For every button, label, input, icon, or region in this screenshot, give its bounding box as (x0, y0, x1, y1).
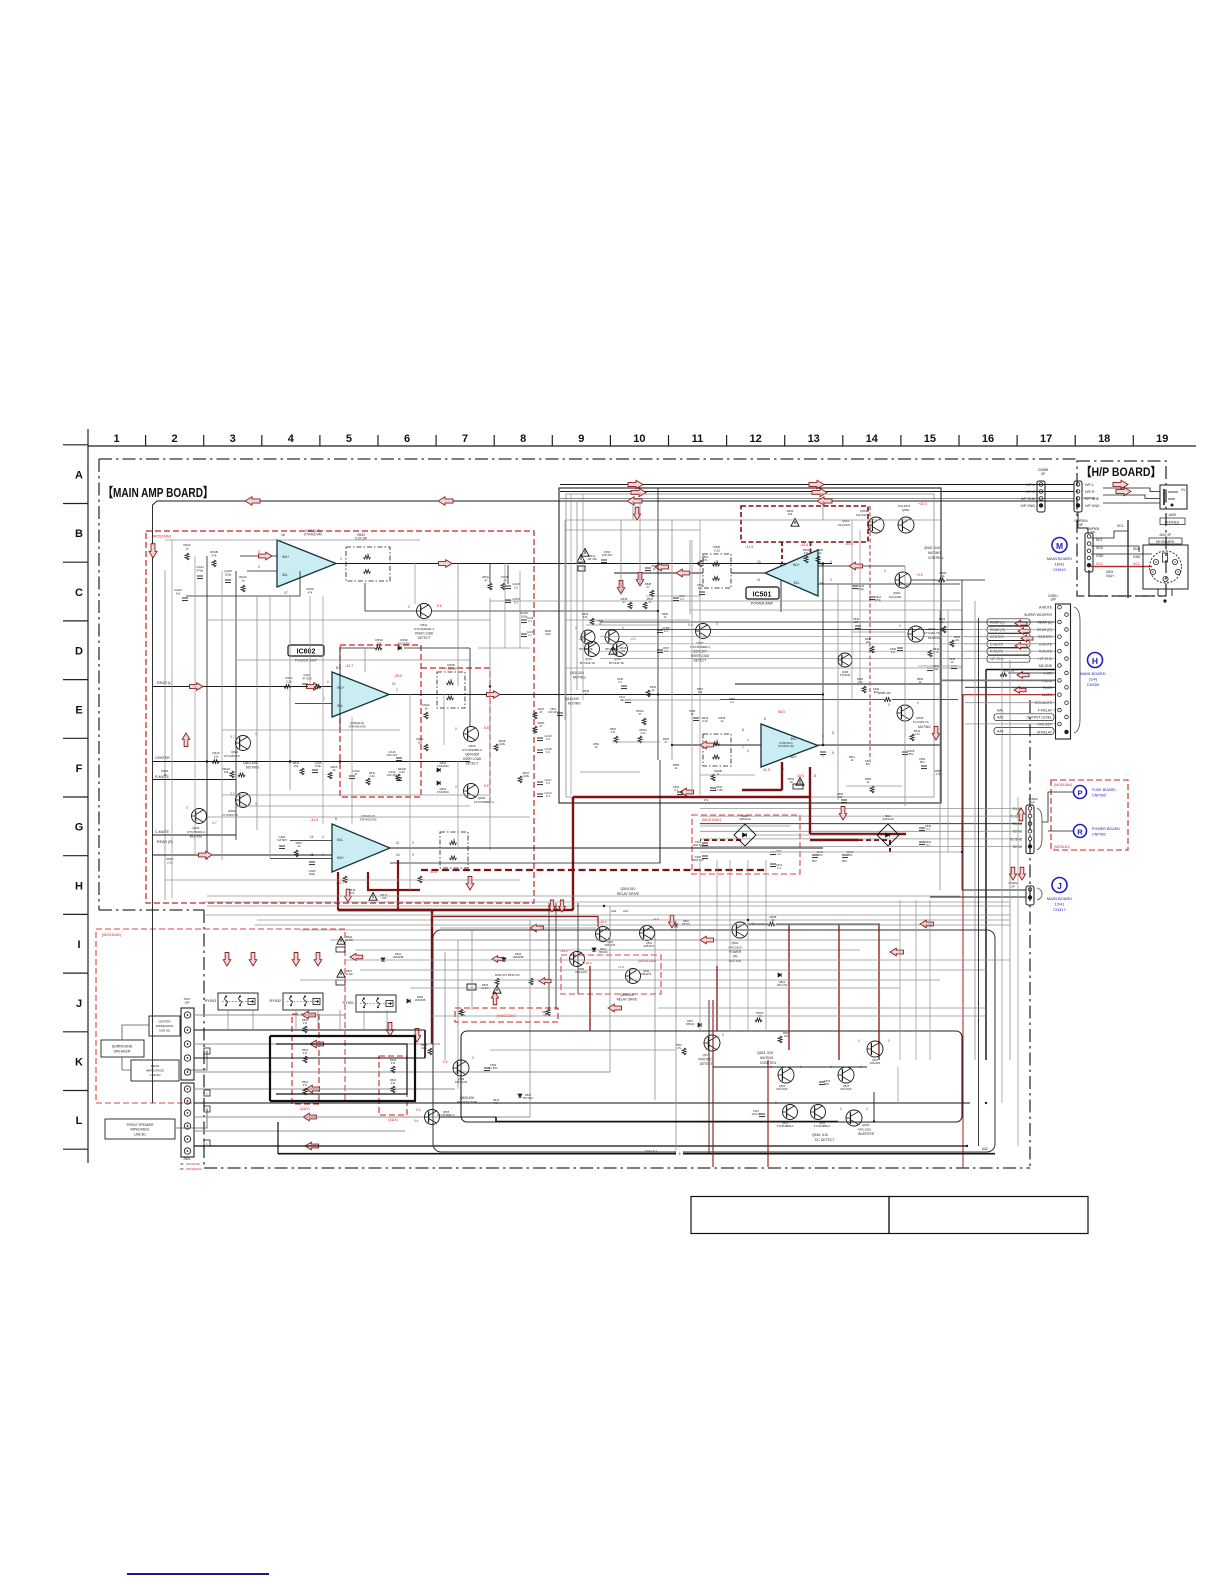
svg-text:CONTROL: CONTROL (928, 556, 944, 560)
caps C504 C505 (702, 842, 708, 844)
svg-text:56V: 56V (848, 853, 853, 857)
wire scl net (1091, 531, 1128, 538)
svg-text:【MAIN AMP BOARD】: 【MAIN AMP BOARD】 (103, 485, 213, 500)
box front speaker impedance (105, 1119, 175, 1139)
svg-text:15k: 15k (294, 764, 299, 768)
svg-text:8.6: 8.6 (484, 784, 489, 788)
svg-text:0: 0 (840, 1107, 842, 1111)
svg-text:0: 0 (408, 605, 410, 609)
svg-text:13: 13 (808, 433, 820, 445)
table left cell (691, 1197, 889, 1234)
svg-text:(MOS10AV): (MOS10AV) (186, 1167, 202, 1171)
svg-text:0: 0 (884, 569, 886, 573)
feedback box IC501a (703, 554, 731, 588)
box rear impedance (131, 1060, 179, 1081)
svg-text:STK-MUTE: STK-MUTE (1035, 701, 1053, 705)
wire FAN GET gray (965, 723, 1055, 725)
wire long vertical x940 (939, 610, 941, 890)
wire front box to connector (175, 1110, 207, 1128)
wire rows I extra 2 (360, 969, 986, 971)
wire inverter vertical (873, 1092, 875, 1121)
op-amp IC602 a (332, 672, 389, 717)
svg-text:KRA102S: KRA102S (870, 1062, 881, 1065)
small component symbol (921, 765, 927, 767)
svg-text:REAR (R): REAR (R) (990, 628, 1005, 632)
svg-text:KRA102S: KRA102S (841, 1088, 852, 1091)
left arrow relay low (539, 978, 551, 985)
cap C527 470p (869, 596, 875, 598)
feedback box ch3 (440, 832, 468, 868)
svg-text:10k: 10k (224, 770, 229, 774)
wire bottom bus C512 (278, 1153, 995, 1155)
overload detect Q507 left of IC501 (696, 624, 711, 639)
svg-text:CENTER: CENTER (158, 1020, 171, 1024)
svg-text:0: 0 (412, 841, 414, 845)
wire long gray G (355, 949, 860, 951)
grid column tick (145, 435, 147, 446)
svg-text:0: 0 (716, 622, 718, 626)
svg-text:(MGS10AV): (MGS10AV) (638, 959, 656, 963)
wire mid vertical x365b (364, 648, 366, 672)
diode D501 (381, 958, 385, 961)
svg-text:QN02, N16: QN02, N16 (924, 546, 940, 550)
grid row tick (63, 737, 88, 739)
main amp board border jog (99, 909, 204, 911)
svg-text:MUTING: MUTING (760, 1056, 774, 1060)
wires feeding CN502 area gray (735, 683, 940, 685)
wire ch2 in- (295, 703, 332, 705)
wire rear L input (152, 686, 332, 688)
wire thick black into M2-GNE (986, 669, 1055, 671)
junction b out (822, 744, 825, 747)
svg-text:(MOS10AV): (MOS10AV) (152, 535, 171, 539)
wire long gray A (490, 600, 960, 602)
svg-text:G: G (75, 822, 84, 834)
svg-text:BTC343-TE: BTC343-TE (579, 648, 593, 651)
svg-text:SURROUND: SURROUND (112, 1045, 133, 1049)
box A vertical gray x222 (221, 571, 223, 860)
grid row tick (63, 913, 88, 915)
svg-text:RY501: RY501 (342, 1001, 354, 1005)
arrows down pair at x1013 y875 (1009, 867, 1016, 880)
wire long black D (390, 800, 660, 863)
svg-text:C-MUTE: C-MUTE (155, 830, 170, 834)
arrow in+ right (849, 562, 863, 570)
svg-text:2.2k: 2.2k (167, 860, 173, 864)
connector CN501 pin REAR (R) (1065, 628, 1069, 632)
junction ch1 out (822, 562, 825, 565)
svg-text:S20SL20: S20SL20 (882, 817, 894, 821)
wire bridge bottom rail (700, 851, 962, 853)
svg-text:+45.5: +45.5 (560, 949, 568, 953)
wire long vertical x1010 (1009, 660, 1011, 1060)
wire long gray B (207, 905, 1010, 907)
svg-text:STK402-100: STK402-100 (778, 744, 794, 748)
svg-text:KTC3199GR-4: KTC3199GR-4 (414, 627, 434, 631)
muting transistor Q510 right (895, 572, 911, 588)
svg-text:0: 0 (455, 727, 457, 731)
svg-text:0.1: 0.1 (777, 852, 781, 856)
wire ch3 output (390, 847, 823, 849)
svg-text:47k: 47k (583, 615, 588, 619)
resistors in AUX1 box (303, 1026, 307, 1033)
svg-text:IC501: IC501 (753, 592, 772, 599)
h/p board border (1077, 461, 1166, 596)
svg-text:470µ: 470µ (875, 598, 882, 602)
warning R507b (337, 970, 345, 978)
svg-text:DC DETECT: DC DETECT (815, 1138, 834, 1142)
svg-text:0.1: 0.1 (926, 843, 930, 847)
connector CN501 pin R-MUTE (1058, 649, 1062, 653)
wire black corner down M2 (985, 670, 987, 1061)
svg-text:-41.5: -41.5 (745, 545, 753, 549)
wire scl vertical (1127, 520, 1129, 598)
big enclosure box right section (559, 488, 941, 803)
svg-text:-31.5: -31.5 (310, 818, 318, 822)
wire long vertical x672 (671, 520, 673, 760)
bridge rectifier D507 (734, 824, 756, 846)
small component symbol (841, 799, 847, 801)
left arrow relay mid (492, 956, 504, 963)
diode D601 (437, 781, 440, 785)
components cluster row D center caps (645, 567, 651, 569)
bus small verticals near 690 (689, 540, 691, 614)
svg-text:MUTING: MUTING (928, 551, 941, 555)
wire h/p-l bus (560, 484, 1074, 486)
box A horizontal gray y730 (222, 729, 400, 731)
svg-text:H/P CHE: H/P CHE (1083, 496, 1095, 500)
resistors below ch3 (343, 876, 347, 883)
small component symbol (693, 717, 699, 719)
arrow IC501b in (700, 741, 714, 749)
svg-text:H/P GND: H/P GND (1020, 504, 1035, 508)
arrow h/p chk left 1 (627, 497, 642, 505)
connector CN501 pin AGNE (1058, 679, 1062, 683)
svg-text:100k: 100k (421, 1046, 427, 1050)
svg-text:REAR (L): REAR (L) (990, 621, 1005, 625)
arrow left under IC501b (680, 788, 694, 796)
wire IC501a in+ right (818, 565, 905, 567)
svg-text:56V: 56V (842, 859, 847, 863)
svg-text:F: F (76, 763, 83, 775)
resistor R544 (928, 650, 932, 657)
wire R link (1048, 830, 1073, 832)
svg-text:CN309: CN309 (1087, 682, 1100, 687)
wire long vertical x962 (961, 580, 963, 890)
svg-text:12: 12 (392, 682, 396, 686)
svg-text:47k: 47k (391, 1081, 396, 1085)
svg-text:POWER: POWER (729, 950, 742, 954)
wire long vertical x975 (974, 601, 976, 1060)
connector CN501 pin STK-MUTE (1065, 701, 1069, 705)
wire maroon bottom center (589, 966, 591, 1031)
red left arrow row J1 (350, 953, 363, 960)
grid column tick (377, 435, 379, 446)
svg-text:47 16V: 47 16V (715, 788, 723, 792)
wire vertical x490 long (489, 598, 491, 850)
wire maroon y910 to x432 (338, 909, 432, 911)
left ruler line (87, 429, 89, 1163)
svg-text:3.7: 3.7 (212, 821, 217, 825)
arrow pair h/p board a (1113, 480, 1128, 488)
grid column tick (609, 435, 611, 446)
svg-text:KTC345-TK: KTC345-TK (224, 754, 240, 758)
wire center verticals A (639, 501, 641, 586)
board link circle J (1052, 878, 1067, 893)
verticals right of relay drive (899, 900, 901, 1060)
svg-text:3: 3 (340, 557, 342, 561)
arrow down top left (149, 544, 157, 558)
svg-text:58.5: 58.5 (778, 710, 785, 714)
grid row tick (63, 620, 88, 622)
maroon dashed mute box top right (741, 506, 868, 542)
svg-text:56V: 56V (818, 853, 823, 857)
arrow ch1 input (259, 552, 273, 560)
arrow down right of Q518 (932, 727, 940, 741)
svg-text:2.2k: 2.2k (286, 679, 292, 683)
svg-text:KTK7800R-A: KTK7800R-A (187, 830, 205, 834)
svg-text:5: 5 (764, 717, 766, 721)
maroon dashed stub near IC501 right (810, 542, 812, 553)
svg-text:I: I (77, 939, 80, 951)
svg-text:REAR (R): REAR (R) (157, 840, 173, 844)
svg-text:BTC343-TE: BTC343-TE (609, 661, 624, 665)
svg-text:7: 7 (742, 746, 744, 750)
svg-text:0: 0 (322, 853, 324, 857)
svg-text:K: K (75, 1057, 83, 1069)
red dashed tall box AUX1 (292, 1014, 319, 1104)
svg-text:Q604,605: Q604,605 (465, 753, 479, 757)
wire h/p board to jack 1 (1103, 488, 1160, 492)
svg-text:47k: 47k (350, 891, 355, 895)
cap C513 (759, 1113, 765, 1115)
wire r585 (720, 699, 884, 701)
label box IC602 (288, 645, 324, 656)
svg-text:5: 5 (722, 1033, 724, 1037)
svg-text:INVERTER: INVERTER (858, 1132, 875, 1136)
svg-text:B: B (206, 1050, 208, 1054)
svg-text:56V: 56V (874, 690, 879, 694)
label box IC501 (746, 587, 779, 599)
wire ch1 input+ (240, 555, 277, 557)
svg-text:(AUX): (AUX) (388, 1118, 397, 1122)
svg-text:0: 0 (255, 802, 257, 806)
svg-text:47k: 47k (303, 1021, 308, 1025)
svg-text:0: 0 (917, 701, 919, 705)
svg-text:8: 8 (832, 731, 834, 735)
wire long gray E (300, 929, 986, 931)
connector CN501 pin M2-GNE (1058, 664, 1062, 668)
svg-text:OVER LOAD: OVER LOAD (415, 632, 434, 636)
main amp board border top (99, 458, 1078, 460)
wire row H long gray 1 (207, 895, 960, 897)
dark red long vertical x963 thin (962, 695, 964, 1168)
muting transistor Q601 bottom (192, 809, 207, 824)
svg-text:KRC1025: KRC1025 (858, 1128, 871, 1132)
warning in mute box (791, 519, 799, 527)
vertical wires under relays (227, 1010, 229, 1030)
resistor R627 100k ch2 (518, 776, 522, 783)
maroon wire ch3 down2 (398, 860, 565, 910)
box A vertical gray x505 (504, 563, 506, 648)
relay drive transistors (596, 927, 611, 942)
arrow ch2 out (487, 691, 501, 699)
center block vertical x700 (699, 520, 701, 795)
svg-text:Q524: Q524 (862, 1123, 870, 1127)
svg-text:KEYBOARD: KEYBOARD (1156, 540, 1175, 544)
main amp board border left lower (203, 910, 205, 1168)
svg-text:220µ: 220µ (225, 572, 232, 576)
svg-text:-35.6: -35.6 (394, 674, 402, 678)
caps CN14 CN19 (812, 854, 818, 856)
connector CN501 pin OUTPUT LEVEL (1065, 715, 1069, 719)
wire gnd net (1091, 553, 1152, 555)
wire rows J extra 4 (410, 987, 900, 989)
red down arrow x390 (386, 1022, 394, 1036)
wire overload drop ch1 (364, 583, 366, 611)
wire ch1 output (336, 563, 832, 565)
wire band H extra c (255, 924, 1010, 926)
box A vertical gray x172 (171, 540, 173, 898)
wire r-mute input (152, 779, 236, 781)
svg-text:100: 100 (838, 795, 843, 799)
small component symbol (870, 646, 874, 653)
arrow pair h/p board b (1116, 487, 1131, 495)
box A vertical gray x520 (519, 571, 521, 648)
svg-text:58V: 58V (825, 1083, 830, 1086)
svg-text:JN01: JN01 (183, 1157, 191, 1161)
center block horizontal y620 (566, 619, 690, 621)
svg-text:5: 5 (335, 817, 337, 821)
svg-text:GND: GND (1133, 555, 1141, 559)
extra wires short center (586, 624, 660, 626)
svg-text:POWER BOARD: POWER BOARD (1092, 827, 1120, 831)
svg-text:FSS1501: FSS1501 (437, 764, 449, 768)
svg-text:Q505,506: Q505,506 (460, 1096, 474, 1100)
svg-text:2P: 2P (1011, 884, 1015, 888)
svg-text:Q523, 525: Q523, 525 (757, 1051, 773, 1055)
svg-text:AA4: AA4 (611, 909, 617, 913)
svg-text:AA1: AA1 (997, 709, 1004, 713)
transistor Q519 top right (908, 626, 924, 642)
svg-text:10: 10 (633, 433, 645, 445)
svg-text:(551S8): (551S8) (599, 951, 608, 954)
arrows in H band down (466, 877, 474, 891)
svg-text:SUPER WOOFER: SUPER WOOFER (1024, 613, 1052, 617)
wire band H extra b (204, 914, 1010, 916)
svg-text:BTC343-TE: BTC343-TE (580, 661, 595, 665)
wire left vertical x236 (235, 571, 237, 840)
svg-text:(MOS13AV): (MOS13AV) (702, 818, 721, 822)
red down arrow x621 row C (617, 581, 625, 595)
svg-text:TBY1S07: TBY1S07 (523, 1097, 534, 1100)
svg-text:0: 0 (747, 749, 749, 753)
svg-text:0: 0 (396, 688, 398, 692)
diode D511 (778, 973, 781, 977)
svg-text:STK402-030: STK402-030 (349, 724, 366, 728)
svg-text:0.6: 0.6 (443, 1060, 448, 1064)
wire IC501a pin13 drop (780, 564, 782, 612)
resistors in AUX2 box (391, 1066, 395, 1073)
svg-text:0: 0 (899, 624, 901, 628)
resistor R628 100k (494, 744, 498, 751)
svg-text:0.1: 0.1 (528, 634, 532, 637)
grid column tick (958, 435, 960, 446)
wire long gray C (257, 919, 1010, 921)
dc detect transistors Q514 Q515b (783, 1105, 798, 1120)
warning R525 (493, 986, 501, 994)
grid column tick (784, 435, 786, 446)
grid row tick (63, 972, 88, 974)
connector CN501 pin M-RELAY (1065, 730, 1069, 734)
keyboard DIN circle (1150, 551, 1182, 583)
svg-text:47k: 47k (308, 590, 313, 594)
arrow rear L 2 (307, 683, 321, 691)
small component symbol (942, 626, 946, 633)
svg-text:STK402-040: STK402-040 (304, 533, 322, 537)
svg-text:M-RELAY: M-RELAY (1037, 730, 1053, 734)
cap C529 (902, 751, 908, 753)
svg-text:C-MUTE: C-MUTE (990, 642, 1004, 646)
wire fb to amp (731, 572, 765, 574)
svg-text:S20SL20: S20SL20 (739, 817, 751, 821)
red dashed box fuse/power board links (1051, 780, 1128, 850)
small component symbol (590, 618, 594, 625)
wire long gray F (330, 939, 900, 941)
connector CN501 pin ALIGN (1058, 693, 1062, 697)
overload transistor ch2 upper Q605 (464, 727, 479, 742)
resistor R559 (755, 1018, 762, 1022)
red dashed extension of IC602 box (421, 668, 490, 805)
table right cell (889, 1197, 1088, 1234)
svg-text:220µ: 220µ (309, 872, 316, 876)
svg-text:RY503: RY503 (204, 999, 216, 1003)
connector CN501 last pin fill (1065, 730, 1069, 734)
svg-text:0: 0 (888, 1039, 890, 1043)
svg-text:VCC: VCC (1096, 562, 1104, 566)
svg-text:H/P-R: H/P-R (1085, 490, 1095, 494)
cluster right block D row (927, 667, 933, 669)
wire vertical x458 (457, 564, 459, 687)
svg-text:0.1: 0.1 (528, 620, 532, 623)
muting transistor Q602 upper (236, 736, 251, 751)
protect detect transistor Q513 (704, 1035, 720, 1051)
wire h/p board to jack 3 (1103, 502, 1160, 504)
wire bus turn at x660 (659, 760, 661, 863)
svg-text:18P: 18P (1050, 598, 1056, 602)
connector CN505 5p (1085, 533, 1093, 572)
svg-text:100: 100 (382, 896, 387, 900)
svg-text:FRONT SPEAKER: FRONT SPEAKER (127, 1123, 155, 1127)
svg-text:E: E (75, 704, 82, 716)
maroon vertical x879 (878, 924, 880, 1060)
svg-text:0: 0 (830, 560, 832, 564)
protect transistor Q505 (425, 1110, 440, 1125)
connector CN555 4p (1037, 481, 1045, 512)
wire ALIGN dark red (962, 694, 1055, 696)
caps CN08 C507 (657, 629, 663, 631)
svg-text:2: 2 (172, 433, 178, 445)
wire rows I extra 1 (345, 959, 1010, 961)
svg-text:KTC3198BR-A: KTC3198BR-A (814, 1125, 831, 1128)
svg-text:47k: 47k (303, 1083, 308, 1087)
svg-text:Q516, 515: Q516, 515 (812, 1133, 828, 1137)
svg-text:OVER LOAD: OVER LOAD (463, 757, 482, 761)
arrow rear L (190, 683, 204, 691)
resistors R639 R640 under ch1 (375, 646, 382, 650)
grid row tick (63, 1090, 88, 1092)
small box R525 (467, 984, 476, 990)
